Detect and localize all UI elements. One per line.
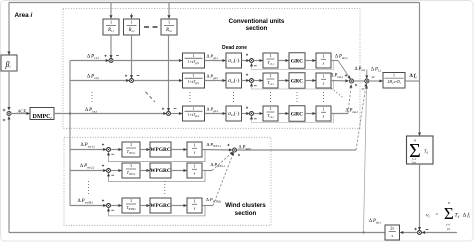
svg-text:1: 1 [193,163,195,168]
svg-text:section: section [246,25,268,32]
svg-text:1: 1 [130,198,132,203]
svg-text:Conventional units: Conventional units [229,18,285,25]
svg-text:j=1: j=1 [445,223,451,227]
svg-text:1: 1 [269,53,271,58]
svg-text:1: 1 [322,106,324,111]
svg-text:1: 1 [322,53,324,58]
svg-text:GRC: GRC [291,58,303,64]
svg-text:Wind clusters: Wind clusters [225,202,266,209]
svg-text:σn,i(·): σn,i(·) [228,110,239,117]
svg-text:1: 1 [193,74,195,78]
svg-text:1: 1 [130,20,132,25]
svg-text:1: 1 [193,198,195,203]
svg-text:σ1,i(·): σ1,i(·) [228,57,239,64]
svg-text:j≠i: j≠i [446,227,450,231]
svg-text:2π: 2π [390,226,394,231]
svg-text:DMPCi: DMPCi [33,114,52,120]
svg-text:WPGRC: WPGRC [150,203,171,209]
svg-text:1: 1 [193,107,195,111]
svg-text:j≠i: j≠i [411,160,415,164]
svg-text:1: 1 [393,74,395,78]
svg-text:Σ: Σ [444,204,454,223]
svg-text:1: 1 [322,73,324,78]
svg-text:1: 1 [168,20,170,25]
svg-text:1: 1 [193,54,195,58]
svg-text:WPGRC: WPGRC [150,168,171,174]
svg-text:1: 1 [269,106,271,111]
svg-text:σ2,i(·): σ2,i(·) [228,77,239,84]
svg-text:GRC: GRC [291,111,303,117]
svg-text:1: 1 [193,142,195,147]
svg-text:section: section [235,210,257,217]
svg-text:1: 1 [130,163,132,168]
svg-text:1: 1 [130,142,132,147]
svg-text:=: = [436,213,439,218]
svg-text:1: 1 [269,73,271,78]
svg-text:WPGRC: WPGRC [150,147,171,153]
svg-text:GRC: GRC [291,78,303,84]
svg-text:Dead zone: Dead zone [222,45,247,51]
svg-text:Area i: Area i [15,12,33,19]
svg-text:1: 1 [110,20,112,25]
